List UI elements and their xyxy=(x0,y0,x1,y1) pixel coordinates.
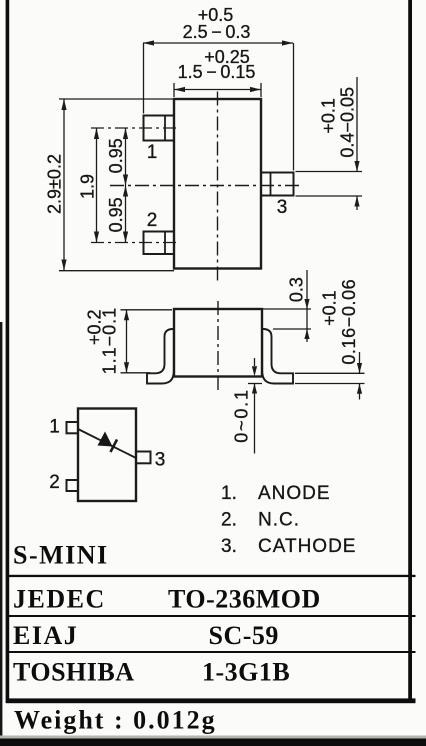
dimension 1.5 +0.25/-0.15 (body width) xyxy=(174,83,261,97)
lead 1 bend line xyxy=(164,116,166,141)
lead 2 centerline xyxy=(91,242,178,244)
dimension 1.1 +0.2/-0.1 (height) xyxy=(121,310,173,373)
svg-text:EIAJ: EIAJ xyxy=(13,621,78,650)
svg-text:3: 3 xyxy=(277,197,288,218)
dimension 0~0.1 (standoff) xyxy=(248,358,262,454)
svg-text:SC-59: SC-59 xyxy=(209,621,279,650)
lead 3 bend line xyxy=(270,173,272,196)
svg-text:2.: 2. xyxy=(221,510,237,531)
svg-text:0.95: 0.95 xyxy=(106,138,126,173)
svg-text:S-MINI: S-MINI xyxy=(13,541,109,570)
package body (top view) xyxy=(174,99,261,269)
svg-text:1: 1 xyxy=(147,142,158,163)
svg-text:1: 1 xyxy=(49,417,60,438)
lead 3 (top view) xyxy=(261,173,294,196)
pinout pin 2 stub xyxy=(67,480,79,491)
svg-text:+0.1: +0.1 xyxy=(319,98,339,134)
dimension 2.9 +-0.2 (body height) xyxy=(59,99,174,271)
dimension 0.16 +0.1/-0.06 (foot thickness) xyxy=(295,352,365,400)
svg-text:3: 3 xyxy=(155,450,166,471)
svg-text:1.: 1. xyxy=(221,483,237,504)
svg-text:1.9: 1.9 xyxy=(78,174,98,199)
svg-text:0.4−0.05: 0.4−0.05 xyxy=(338,87,358,158)
dimension 0.95 x2 (lead pitch) xyxy=(125,128,127,243)
lead 2 bend line xyxy=(164,232,166,255)
pinout body xyxy=(78,409,136,502)
body horizontal centerline xyxy=(110,185,300,187)
svg-text:3.: 3. xyxy=(221,536,237,557)
dimension 0.4 +0.1/-0.05 (lead 3 width) xyxy=(296,77,363,210)
svg-text:2.9±0.2: 2.9±0.2 xyxy=(45,154,65,214)
svg-text:1.1−0.1: 1.1−0.1 xyxy=(100,307,120,375)
lead 3 (side view gull wing) xyxy=(262,329,293,384)
lead 1 centerline xyxy=(91,127,178,129)
package body (side view) xyxy=(174,309,262,377)
svg-text:TO-236MOD: TO-236MOD xyxy=(168,585,321,614)
lead 2 (top view) xyxy=(144,232,175,255)
svg-text:JEDEC: JEDEC xyxy=(13,585,106,614)
svg-text:0.95: 0.95 xyxy=(106,197,126,232)
left page border xyxy=(6,0,10,703)
table line 3 xyxy=(6,651,416,653)
svg-text:+0.1: +0.1 xyxy=(320,290,340,326)
svg-text:0~0.1: 0~0.1 xyxy=(232,388,252,443)
pinout pin 1 stub xyxy=(67,422,79,433)
svg-text:1.5 − 0.15: 1.5 − 0.15 xyxy=(178,62,256,82)
right page border xyxy=(408,0,412,703)
lead 1 (top view) xyxy=(144,116,175,141)
dimension 1.9 (lead pitch outer) xyxy=(96,128,98,243)
svg-text:2: 2 xyxy=(49,472,60,493)
svg-text:0.16−0.06: 0.16−0.06 xyxy=(339,279,359,365)
svg-text:TOSHIBA: TOSHIBA xyxy=(13,658,135,687)
svg-text:0.3: 0.3 xyxy=(287,277,307,302)
svg-text:1-3G1B: 1-3G1B xyxy=(202,658,290,687)
diode D wire xyxy=(78,429,136,458)
svg-text:Weight : 0.012g: Weight : 0.012g xyxy=(14,706,217,735)
dimension 0.3 (lead shoulder) xyxy=(263,270,311,342)
pinout pin 3 stub xyxy=(136,452,151,464)
lead 1 (side view gull wing) xyxy=(147,329,174,384)
table line top xyxy=(6,575,416,577)
table line bottom xyxy=(6,698,416,703)
diode D cathode bar xyxy=(111,440,118,453)
svg-text:CATHODE: CATHODE xyxy=(258,536,356,557)
side view centerline xyxy=(217,301,219,390)
svg-text:N.C.: N.C. xyxy=(258,510,300,531)
svg-text:2: 2 xyxy=(147,210,158,231)
dimension 2.5 +0.5/-0.3 (overall width) xyxy=(143,43,294,171)
diode D anode triangle xyxy=(98,432,113,447)
left photo edge line xyxy=(0,322,2,746)
bottom black bar xyxy=(0,736,426,739)
svg-text:2.5 − 0.3: 2.5 − 0.3 xyxy=(183,22,251,42)
table line 2 xyxy=(6,615,416,617)
svg-text:ANODE: ANODE xyxy=(258,483,331,504)
body vertical centerline xyxy=(217,92,219,281)
